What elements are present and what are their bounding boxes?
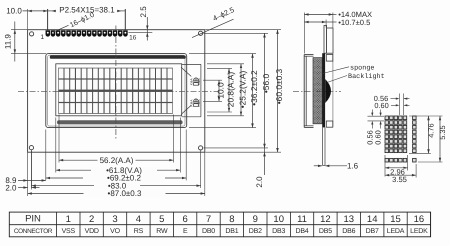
- backlight terminal bay outline: [182, 63, 201, 65]
- side connector housing: [327, 28, 333, 53]
- svg-text:5: 5: [159, 214, 164, 225]
- svg-text:6: 6: [183, 214, 188, 225]
- ext VA right: [207, 63, 244, 65]
- svg-text:•87.0±0.3: •87.0±0.3: [108, 189, 142, 198]
- mounting hole top-left: [30, 32, 34, 36]
- ext AA bottom sides: [58, 115, 60, 163]
- dot matrix corner dot: [413, 158, 417, 162]
- mounting hole bottom-right: [199, 146, 203, 150]
- svg-text:1: 1: [40, 34, 44, 41]
- svg-text:5.35: 5.35: [438, 125, 447, 139]
- ext pcb top left: [11, 29, 28, 31]
- dim 2.96: [385, 167, 408, 169]
- svg-text:K⊕A: K⊕A: [189, 77, 193, 85]
- PCB outline front view: [28, 30, 205, 153]
- svg-text:7: 7: [206, 214, 211, 225]
- ext bezel top left: [11, 53, 46, 55]
- dim 69.2+-0.2: [46, 177, 186, 179]
- ext bezel right: [189, 53, 256, 55]
- ext VA bottom sides: [55, 118, 57, 173]
- tick rows left: [368, 115, 385, 117]
- bezel inner frame line: [48, 55, 185, 126]
- svg-text:K⊕A: K⊕A: [197, 99, 201, 107]
- svg-text:DB4: DB4: [295, 228, 308, 235]
- ext side pcb front up: [325, 20, 327, 28]
- svg-text:CONNECTOR: CONNECTOR: [14, 228, 53, 235]
- svg-text:•56.0: •56.0: [261, 74, 271, 94]
- svg-text:3: 3: [112, 214, 117, 225]
- dim 56.0: [264, 33, 266, 148]
- ext grid sides down: [384, 155, 386, 177]
- svg-text:DB0: DB0: [202, 228, 215, 235]
- tick cols top: [398, 94, 400, 116]
- dot matrix separated column: [413, 116, 417, 120]
- ext AA right: [207, 67, 232, 69]
- svg-text:1.6: 1.6: [347, 162, 359, 171]
- ext bezel bottom sides: [45, 130, 47, 181]
- svg-text:2.0: 2.0: [5, 184, 17, 193]
- ext pcb right: [206, 29, 282, 31]
- dim 5.35: [439, 116, 441, 162]
- ext holes right: [204, 32, 269, 34]
- ext line pin row center: [128, 32, 152, 34]
- dot matrix main grid 5x8: [385, 116, 389, 120]
- leader sponge: [323, 67, 350, 74]
- dim P2.54 line: [48, 10, 56, 12]
- svg-text:11: 11: [297, 214, 307, 225]
- svg-text:K⊕A: K⊕A: [189, 99, 193, 107]
- ext line pcb left top: [27, 9, 29, 29]
- svg-text:DB1: DB1: [225, 228, 238, 235]
- dim 61.8(V.A): [56, 169, 181, 171]
- svg-text:15: 15: [390, 214, 401, 225]
- dim 3.55: [385, 174, 416, 176]
- svg-text:3.55: 3.55: [392, 175, 407, 184]
- side bezel front profile: [303, 55, 305, 128]
- ext grid bottom right: [409, 152, 431, 154]
- dim 2.5 line: [146, 17, 148, 41]
- svg-text:56.2(A.A): 56.2(A.A): [100, 156, 134, 165]
- svg-text:RW: RW: [156, 228, 168, 235]
- svg-text:PIN: PIN: [25, 214, 41, 225]
- ext cursor bottom right: [418, 161, 443, 163]
- svg-text:10.0: 10.0: [216, 82, 226, 99]
- svg-text:VO: VO: [110, 228, 120, 235]
- side bezel clip bottom: [326, 121, 333, 127]
- svg-text:2: 2: [89, 214, 94, 225]
- ext holes bottom: [31, 150, 33, 188]
- svg-text:10: 10: [273, 214, 284, 225]
- svg-text:VSS: VSS: [62, 228, 76, 235]
- backlight lens: [325, 79, 331, 103]
- svg-text:1: 1: [66, 214, 71, 225]
- ext hole bl center: [31, 150, 33, 189]
- svg-text:LEDA: LEDA: [387, 228, 405, 235]
- ext pcb bottom sides: [27, 153, 29, 197]
- dim 14.0MAX: [304, 13, 333, 15]
- svg-text:DB7: DB7: [366, 228, 379, 235]
- ext terminals right: [203, 79, 222, 81]
- sponge hatch region: [313, 58, 322, 124]
- svg-text:14: 14: [367, 214, 378, 225]
- svg-text:K⊕A: K⊕A: [197, 77, 201, 85]
- dim 4.76: [428, 116, 430, 153]
- dim 11.9 line: [14, 22, 16, 62]
- svg-text:RS: RS: [134, 228, 144, 235]
- dim 36.2+-0.2: [252, 54, 254, 128]
- side pcb: [322, 53, 325, 127]
- svg-text:10.0: 10.0: [6, 7, 22, 16]
- svg-text:8: 8: [229, 214, 234, 225]
- bezel outer frame: [46, 54, 187, 128]
- dim 60.0+-0.3: [277, 30, 279, 153]
- dot matrix separated row: [385, 158, 389, 162]
- dim 20.8(A.A): [228, 68, 230, 112]
- ext line pin1: [47, 9, 49, 30]
- dim 56.2(A.A): [59, 159, 174, 161]
- svg-text:•60.0±0.3: •60.0±0.3: [274, 68, 284, 104]
- dim 87.0+-0.3: [28, 193, 205, 195]
- svg-text:•36.2±0.2: •36.2±0.2: [249, 70, 259, 106]
- ext side bezel front up: [303, 13, 305, 54]
- terminal bay chamfer bottom: [181, 105, 191, 114]
- svg-text:12: 12: [320, 214, 331, 225]
- dim 1.6: [314, 165, 322, 167]
- dim 10.7+-0.5: [304, 21, 326, 23]
- svg-text:DB5: DB5: [319, 228, 332, 235]
- ext side pcb back up: [332, 13, 334, 28]
- svg-text:4.76: 4.76: [427, 123, 436, 137]
- svg-text:DB6: DB6: [342, 228, 355, 235]
- svg-text:16: 16: [129, 35, 137, 42]
- svg-text:2.5: 2.5: [139, 6, 148, 18]
- svg-text:0.60: 0.60: [374, 101, 388, 110]
- svg-text:sponge: sponge: [350, 64, 374, 72]
- side housing back line: [332, 53, 334, 126]
- display window: [56, 64, 182, 116]
- vertical centerline: [115, 26, 117, 139]
- dim 2.0 line: [18, 187, 28, 189]
- dim 8.9 line: [18, 179, 46, 181]
- svg-text:0.60: 0.60: [374, 130, 383, 144]
- svg-text:•25.2(V.A): •25.2(V.A): [238, 71, 248, 109]
- svg-text:11.9: 11.9: [4, 34, 13, 50]
- horizontal centerline: [18, 90, 219, 92]
- svg-text:4: 4: [136, 214, 141, 225]
- terminal bay chamfer top: [181, 67, 191, 76]
- side bezel clip top: [326, 55, 333, 62]
- side pcb tail: [322, 127, 324, 165]
- svg-text:DB3: DB3: [272, 228, 285, 235]
- dim 83.0: [32, 185, 201, 187]
- mounting hole bottom-left: [29, 146, 33, 150]
- dim 25.2(V.A): [240, 64, 242, 116]
- bezel top dark bar: [50, 55, 186, 58]
- pin header 16 pins: [46, 30, 51, 34]
- ext line pin16: [124, 9, 126, 30]
- bezel bottom gray bar: [57, 120, 183, 124]
- mounting hole top-right: [199, 31, 203, 35]
- svg-text:DB2: DB2: [249, 228, 262, 235]
- backlight terminals K A: [194, 78, 199, 83]
- ext grid top right: [409, 115, 443, 117]
- pin table frame: [9, 212, 430, 237]
- svg-text:VDD: VDD: [85, 228, 99, 235]
- svg-text:•10.7±0.5: •10.7±0.5: [338, 18, 370, 27]
- leader 16-dia1.0: [53, 25, 69, 32]
- svg-text:13: 13: [344, 214, 355, 225]
- side view centerline: [293, 90, 341, 92]
- svg-text:Backlight: Backlight: [348, 73, 385, 81]
- svg-text:9: 9: [253, 214, 258, 225]
- leader backlight: [327, 76, 347, 83]
- dim 10.0 line: [23, 10, 48, 12]
- svg-text:2.0: 2.0: [255, 176, 264, 188]
- side connector pin: [324, 26, 327, 54]
- svg-text:20.8(A.A): 20.8(A.A): [226, 72, 236, 108]
- dim 10.0 vert: [218, 80, 220, 101]
- leader 4-dia2.5: [192, 19, 234, 37]
- dim 2.0 right line: [264, 148, 266, 175]
- svg-text:E: E: [183, 228, 188, 235]
- character cell grid 20x4: [58, 68, 173, 114]
- svg-text:LEDK: LEDK: [410, 228, 428, 235]
- svg-text:16: 16: [414, 214, 425, 225]
